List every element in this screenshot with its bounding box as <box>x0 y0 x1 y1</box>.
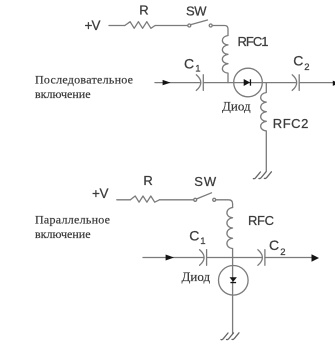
ground (top, RFC2) <box>253 172 271 179</box>
wire diode to C2 (top) <box>263 82 297 84</box>
wire: input line to C1 (bottom) <box>143 257 204 259</box>
switch SW (top) <box>188 20 212 27</box>
svg-text:включение: включение <box>35 87 91 101</box>
capacitor C1 (bottom) <box>200 250 207 266</box>
svg-text:1: 1 <box>200 236 205 247</box>
svg-text:RFC1: RFC1 <box>238 34 269 49</box>
svg-text:1: 1 <box>195 64 200 75</box>
svg-text:SW: SW <box>194 174 217 189</box>
diode D2 circle (shunt) <box>219 266 249 296</box>
diode D2 symbol (triangle + cathode bar) <box>230 277 237 282</box>
svg-text:SW: SW <box>186 3 207 18</box>
diode D1 symbol (triangle + cathode bar) <box>244 79 250 86</box>
wire R to SW (bottom) <box>160 199 194 201</box>
svg-text:C: C <box>293 53 303 69</box>
wire +V to R (bottom) <box>117 199 131 201</box>
svg-text:R: R <box>143 173 152 188</box>
wire C1 to diode circle (top) <box>203 82 262 84</box>
wire C2 to output (top) <box>299 82 333 84</box>
wire SW to RFC1 corner (top) <box>212 26 228 36</box>
svg-text:Параллельное: Параллельное <box>35 213 110 227</box>
svg-text:C: C <box>184 55 194 71</box>
resistor R (top) <box>125 22 155 29</box>
svg-text:C: C <box>269 237 279 253</box>
diode D1 circle (series) <box>234 68 263 97</box>
inductor RFC (bottom) <box>227 208 233 258</box>
svg-text:2: 2 <box>280 247 285 258</box>
wire SW to RFC corner (bottom) <box>216 200 233 208</box>
wire R to SW (top) <box>155 25 187 27</box>
inductor RFC2 <box>261 83 267 172</box>
wire +V to R (top) <box>109 25 125 27</box>
node: input arrow (top line) <box>163 80 171 85</box>
capacitor C1 (top) <box>196 75 203 91</box>
wire C2 to output arrow (bottom) <box>265 257 312 259</box>
svg-text:Диод: Диод <box>222 99 251 114</box>
svg-text:Последовательное: Последовательное <box>35 72 133 86</box>
svg-text:RFC: RFC <box>248 213 274 228</box>
svg-text:RFC2: RFC2 <box>273 116 309 131</box>
wire junction to diode circle (bottom) <box>232 258 234 334</box>
svg-text:C: C <box>189 228 199 244</box>
wire: input line to C1 (top) <box>155 82 201 84</box>
node: output arrow stub at right edge (top line) <box>333 81 335 86</box>
node: input arrow (bottom line) <box>166 255 174 261</box>
resistor R (bottom) <box>130 196 159 202</box>
svg-text:+V: +V <box>92 186 109 201</box>
switch SW (bottom) <box>194 193 216 202</box>
wire C1 to C2 (bottom) <box>207 257 263 259</box>
capacitor C2 (top) <box>292 75 299 91</box>
svg-text:R: R <box>139 3 148 18</box>
svg-text:+V: +V <box>85 18 101 33</box>
svg-text:включение: включение <box>35 227 91 241</box>
ground (bottom, diode) <box>221 333 239 340</box>
inductor RFC1 <box>222 36 228 83</box>
svg-text:2: 2 <box>304 62 309 73</box>
capacitor C2 (bottom) <box>258 250 265 266</box>
svg-text:Диод: Диод <box>182 269 211 284</box>
node: output arrow (bottom line) <box>312 254 320 262</box>
